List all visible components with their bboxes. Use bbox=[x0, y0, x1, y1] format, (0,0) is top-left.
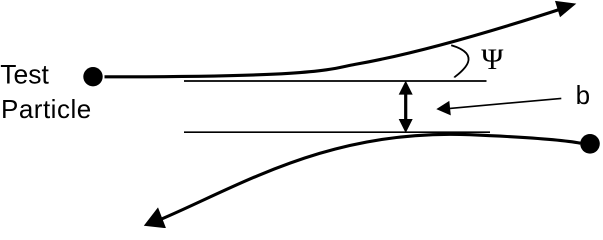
svg-text:Ψ: Ψ bbox=[481, 43, 504, 76]
svg-text:Particle: Particle bbox=[1, 94, 92, 124]
svg-text:Test: Test bbox=[0, 60, 49, 90]
svg-text:b: b bbox=[576, 80, 590, 110]
